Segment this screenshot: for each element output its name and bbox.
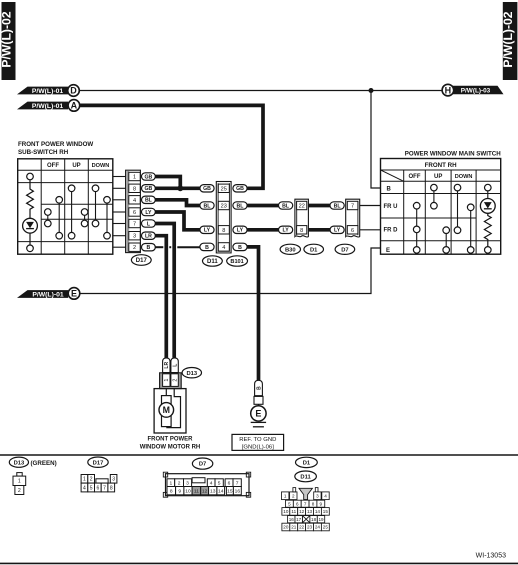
svg-text:LY: LY <box>237 228 244 234</box>
svg-text:B: B <box>256 386 262 390</box>
svg-text:P/W(L)-01: P/W(L)-01 <box>32 292 64 299</box>
wire node D to node H (ground reference line) <box>79 90 442 92</box>
svg-text:9: 9 <box>320 501 323 506</box>
net flag P/W(L)-01 node E <box>17 288 80 300</box>
svg-text:6: 6 <box>296 501 299 506</box>
reference tab P/W(L)-02 (top left) <box>0 2 16 80</box>
svg-text:8: 8 <box>133 186 136 192</box>
connector D17 wire colour tags <box>142 173 156 251</box>
ground connector wire colour tag B <box>255 380 263 395</box>
D11 side wire colour tags <box>200 185 214 251</box>
oval label D17 (bottom) <box>88 457 108 467</box>
svg-text:11: 11 <box>194 488 199 494</box>
D7 side LY tag <box>330 226 344 234</box>
svg-text:B: B <box>147 245 151 251</box>
svg-text:15: 15 <box>323 509 329 514</box>
sub-switch pin stub wires <box>113 177 126 248</box>
svg-text:3: 3 <box>316 493 319 498</box>
diode (sub-switch illumination) <box>23 218 38 245</box>
motor pin 2 lead <box>166 389 180 428</box>
oval label B101 <box>227 256 248 266</box>
svg-text:1: 1 <box>83 477 86 483</box>
B30 side BL tag <box>279 202 293 210</box>
svg-text:B: B <box>238 245 242 251</box>
oval label D1 (bottom) <box>296 457 318 467</box>
wire BL D1 to D7 <box>308 204 330 208</box>
svg-text:OFF: OFF <box>409 174 421 180</box>
svg-text:D7: D7 <box>341 247 348 253</box>
svg-text:REF. TO GND: REF. TO GND <box>239 437 276 443</box>
svg-text:19: 19 <box>318 517 324 522</box>
svg-text:8: 8 <box>300 228 303 234</box>
svg-text:SUB-SWITCH RH: SUB-SWITCH RH <box>18 149 69 156</box>
svg-text:5: 5 <box>288 501 291 506</box>
svg-text:8: 8 <box>222 228 225 234</box>
svg-text:OFF: OFF <box>47 163 59 169</box>
svg-text:16: 16 <box>235 488 241 494</box>
svg-text:GB: GB <box>145 174 153 180</box>
net flag P/W(L)-03 node H <box>442 84 503 96</box>
svg-text:BL: BL <box>145 198 153 204</box>
svg-text:E: E <box>255 409 261 419</box>
svg-text:WINDOW MOTOR RH: WINDOW MOTOR RH <box>140 445 201 451</box>
svg-text:23: 23 <box>307 525 313 530</box>
svg-text:1: 1 <box>18 479 21 485</box>
svg-text:5: 5 <box>90 485 93 491</box>
connector view D13 <box>13 473 26 495</box>
motor frame <box>162 396 172 427</box>
svg-text:2: 2 <box>90 477 93 483</box>
wire B B101 to ground <box>247 247 258 380</box>
connector B30 / D1 column <box>295 199 309 237</box>
svg-text:16: 16 <box>289 517 295 522</box>
svg-text:P/W(L)-01: P/W(L)-01 <box>32 88 64 95</box>
svg-text:4: 4 <box>324 493 327 498</box>
svg-text:3: 3 <box>133 234 136 240</box>
svg-text:7: 7 <box>304 501 307 506</box>
oval label D11 <box>203 256 223 266</box>
svg-text:LY: LY <box>204 228 211 234</box>
sub-switch contacts <box>27 173 111 251</box>
resistor (main switch illumination) <box>484 213 491 246</box>
resistor (sub-switch illumination) <box>27 180 34 218</box>
svg-text:BL: BL <box>237 203 245 209</box>
svg-text:D11: D11 <box>207 259 218 265</box>
svg-text:6: 6 <box>133 210 136 216</box>
svg-text:4: 4 <box>222 245 225 251</box>
svg-text:5: 5 <box>218 480 221 486</box>
oval label D13 (bottom) <box>9 457 28 467</box>
svg-text:2: 2 <box>173 379 179 382</box>
main switch contact stems <box>417 191 488 247</box>
switch table: front power window sub-switch RH <box>18 159 113 254</box>
svg-text:4: 4 <box>133 198 136 204</box>
svg-text:B30: B30 <box>285 247 296 253</box>
wire LY B101 to B30 <box>247 228 278 232</box>
wire LY pin 6 to D11 <box>155 212 200 230</box>
wire L pin 7 to motor <box>155 224 174 358</box>
label FRONT POWER WINDOW MOTOR RH <box>140 437 201 451</box>
connector view D11 <box>282 488 330 531</box>
svg-text:D: D <box>70 86 77 96</box>
svg-text:FRONT RH: FRONT RH <box>425 162 457 169</box>
svg-text:12: 12 <box>202 488 208 494</box>
wire junction to main switch terminal B <box>371 91 381 189</box>
oval label D11 (bottom) <box>295 471 317 482</box>
svg-text:1: 1 <box>169 480 172 486</box>
bottom border <box>0 562 518 564</box>
svg-text:GB: GB <box>203 186 211 192</box>
svg-text:10: 10 <box>283 509 289 514</box>
svg-text:13: 13 <box>307 509 313 514</box>
wire A (GB supply) to connector B101 pin 25 <box>80 105 263 188</box>
svg-text:L: L <box>172 364 178 367</box>
svg-text:DOWN: DOWN <box>92 163 110 169</box>
wire LY D1 to D7 <box>308 228 330 232</box>
svg-text:D17: D17 <box>136 258 148 264</box>
wire BL pin 4 to D11 <box>155 200 200 206</box>
svg-text:2: 2 <box>178 480 181 486</box>
svg-text:P/W(L)-01: P/W(L)-01 <box>32 103 64 110</box>
wire GB pin 1 <box>155 177 180 189</box>
svg-text:3: 3 <box>112 477 115 483</box>
svg-text:9: 9 <box>178 488 181 494</box>
connector D13 wire colour tag L <box>171 358 179 373</box>
oval label D7 (bottom) <box>192 458 212 469</box>
svg-text:8: 8 <box>312 501 315 506</box>
svg-text:4: 4 <box>83 485 86 491</box>
oval label B30 <box>280 244 300 254</box>
svg-text:1: 1 <box>284 493 287 498</box>
svg-text:2: 2 <box>18 488 21 494</box>
svg-text:7: 7 <box>236 480 239 486</box>
diode (main switch illumination) <box>480 199 495 214</box>
svg-text:7: 7 <box>103 485 106 491</box>
svg-text:P/W(L)-02: P/W(L)-02 <box>0 11 14 67</box>
svg-text:BL: BL <box>334 203 342 209</box>
svg-text:11: 11 <box>291 509 296 514</box>
svg-text:P/W(L)-03: P/W(L)-03 <box>461 88 491 95</box>
svg-text:10: 10 <box>185 488 191 494</box>
oval label D1 <box>304 244 324 254</box>
svg-text:P/W(L)-02: P/W(L)-02 <box>501 11 515 67</box>
svg-text:UP: UP <box>72 163 80 169</box>
B30 side LY tag <box>279 226 293 234</box>
svg-text:2: 2 <box>133 245 136 251</box>
B101 side wire colour tags <box>233 185 247 251</box>
svg-text:D11: D11 <box>300 474 311 480</box>
svg-text:8: 8 <box>110 485 113 491</box>
svg-text:BL: BL <box>282 203 290 209</box>
svg-text:7: 7 <box>133 222 136 228</box>
svg-text:23: 23 <box>221 204 227 210</box>
wire D7 pin 6 to main switch FR D <box>360 229 381 231</box>
svg-text:4: 4 <box>210 480 213 486</box>
label FRONT POWER WINDOW SUB-SWITCH RH <box>18 141 93 156</box>
svg-text:BL: BL <box>204 203 212 209</box>
svg-text:7: 7 <box>351 204 354 210</box>
connector view D17 <box>81 475 117 492</box>
connector D13 pin bracket <box>160 373 182 389</box>
svg-text:8: 8 <box>170 488 173 494</box>
svg-text:POWER WINDOW MAIN SWITCH: POWER WINDOW MAIN SWITCH <box>405 151 501 158</box>
svg-text:3: 3 <box>186 480 189 486</box>
svg-text:WI-13053: WI-13053 <box>476 553 506 560</box>
svg-text:1: 1 <box>133 175 136 181</box>
wire D7 pin 7 to main switch FR U <box>360 205 381 207</box>
svg-text:18: 18 <box>311 517 317 522</box>
separator line <box>0 454 518 456</box>
junction GB <box>177 185 183 191</box>
svg-text:LY: LY <box>145 210 152 216</box>
svg-text:B: B <box>387 186 392 192</box>
connector view D7 <box>163 472 250 497</box>
svg-text:22: 22 <box>299 204 305 210</box>
svg-text:M: M <box>163 405 170 415</box>
svg-text:DOWN: DOWN <box>455 174 473 180</box>
svg-text:B101: B101 <box>230 259 243 265</box>
svg-text:17: 17 <box>296 517 302 522</box>
svg-text:[GND(L)-06]: [GND(L)-06] <box>242 445 274 451</box>
label POWER WINDOW MAIN SWITCH <box>405 151 501 158</box>
junction on D-H wire <box>369 88 374 93</box>
switch table: power window main switch <box>381 159 501 255</box>
wire GB pin 8 to D11 <box>155 186 200 190</box>
svg-text:12: 12 <box>299 509 305 514</box>
svg-text:13: 13 <box>210 488 216 494</box>
label (GREEN) <box>31 460 57 467</box>
svg-text:LR: LR <box>164 362 170 369</box>
svg-text:FRONT POWER: FRONT POWER <box>148 437 194 443</box>
svg-text:D1: D1 <box>303 460 311 466</box>
net flag P/W(L)-01 node A <box>17 100 80 112</box>
svg-text:LY: LY <box>283 228 290 234</box>
svg-text:FR D: FR D <box>384 228 399 234</box>
reference tab P/W(L)-02 (top right) <box>501 2 517 80</box>
front power window motor RH box <box>154 389 186 433</box>
connector D7 column <box>346 199 360 237</box>
ground symbol <box>251 422 266 426</box>
motor M <box>159 403 174 418</box>
svg-text:15: 15 <box>227 488 233 494</box>
svg-text:14: 14 <box>218 488 224 494</box>
svg-text:24: 24 <box>315 525 321 530</box>
svg-text:1: 1 <box>164 379 170 382</box>
oval label D13 <box>182 368 201 378</box>
svg-text:(GREEN): (GREEN) <box>31 460 57 467</box>
svg-text:GB: GB <box>236 186 244 192</box>
wire LR pin 3 to motor <box>155 236 166 358</box>
wire BL B101 to B30 <box>247 204 278 208</box>
wire B pin 2 to D11 (crosses under motor wires) <box>155 246 200 248</box>
motor pin 1 lead <box>165 389 167 396</box>
connector D17 pin strip <box>126 170 141 252</box>
oval label D17 <box>131 255 151 266</box>
net flag P/W(L)-01 node D <box>17 85 79 97</box>
D7 side BL tag <box>330 202 344 210</box>
svg-text:D17: D17 <box>93 460 104 466</box>
svg-text:LY: LY <box>334 228 341 234</box>
connector D13 wire colour tag LR <box>163 358 171 373</box>
main switch contacts <box>413 184 491 253</box>
svg-text:25: 25 <box>323 525 329 530</box>
svg-text:6: 6 <box>228 480 231 486</box>
label REF. TO GND <box>232 434 284 450</box>
svg-text:D13: D13 <box>186 371 197 377</box>
svg-text:A: A <box>71 101 78 111</box>
svg-text:GB: GB <box>145 186 153 192</box>
svg-text:E: E <box>386 248 390 254</box>
svg-text:E: E <box>71 289 77 299</box>
svg-text:H: H <box>445 85 452 95</box>
svg-text:D7: D7 <box>199 462 206 468</box>
svg-text:20: 20 <box>283 525 289 530</box>
svg-text:D13: D13 <box>14 460 25 466</box>
svg-text:LR: LR <box>145 234 152 240</box>
svg-text:UP: UP <box>434 174 442 180</box>
wire node E to main switch terminal E <box>80 248 381 294</box>
svg-text:B: B <box>205 245 209 251</box>
drawing number WI-13053 <box>476 553 506 560</box>
svg-text:25: 25 <box>221 186 227 192</box>
svg-text:22: 22 <box>299 525 305 530</box>
svg-text:6: 6 <box>96 485 99 491</box>
svg-text:FR U: FR U <box>384 204 398 210</box>
svg-text:14: 14 <box>315 509 321 514</box>
connector D11 / B101 column <box>216 182 231 253</box>
svg-text:6: 6 <box>351 228 354 234</box>
oval label D7 (inline) <box>335 244 355 254</box>
svg-text:D1: D1 <box>310 247 318 253</box>
ground connector pin box <box>254 396 263 404</box>
svg-text:21: 21 <box>291 525 297 530</box>
sub-switch contact stems <box>48 192 107 233</box>
ground node E circle <box>251 404 266 421</box>
svg-text:2: 2 <box>292 493 295 498</box>
svg-text:FRONT POWER WINDOW: FRONT POWER WINDOW <box>18 141 93 148</box>
